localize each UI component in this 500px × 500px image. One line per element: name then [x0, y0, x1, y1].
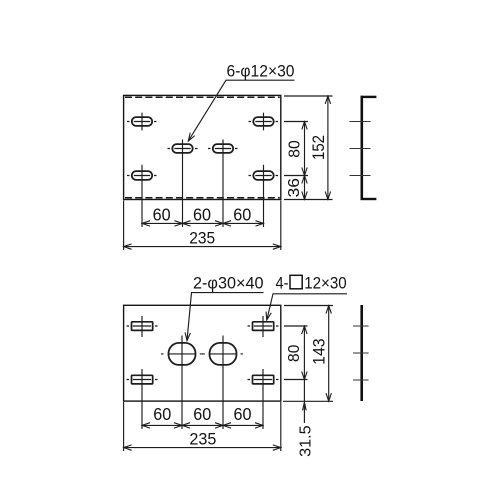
dim line 36 top view [304, 176, 306, 200]
svg-text:6-φ12×30: 6-φ12×30 [227, 62, 295, 80]
extension line bottom edge right [284, 199, 333, 201]
svg-text:4-: 4- [276, 274, 289, 292]
centerline oval F1 vertical [181, 336, 183, 430]
svg-text:80: 80 [286, 140, 303, 158]
side view top (channel edge) [360, 96, 363, 200]
slotted hole B1 (middle-left) [172, 144, 192, 153]
extension line top edge bottom view [284, 305, 333, 307]
svg-text:143: 143 [309, 338, 328, 365]
dim line 80 bottom view [303, 326, 305, 380]
extension line top edge right [284, 95, 333, 97]
extension line row3 right [284, 175, 308, 177]
dim line 152 top view [327, 96, 329, 200]
centerline slotted hole C1 [127, 165, 157, 227]
svg-text:12×30: 12×30 [304, 274, 347, 292]
leader 6-phi12x30 [188, 80, 294, 141]
svg-text:36: 36 [286, 178, 303, 198]
centerline oval F2 vertical [222, 336, 224, 430]
hidden bend line below top edge [125, 96, 280, 98]
centerline oval holes horizontal [161, 353, 243, 355]
arrowhead 31.5 pointing up [303, 402, 307, 410]
slotted hole C1 (bottom-left) [132, 171, 152, 180]
plate outline bottom view [124, 305, 281, 401]
dim line 60 chain seg2 top view [183, 222, 224, 224]
svg-text:2-φ30×40: 2-φ30×40 [193, 274, 264, 292]
svg-text:60: 60 [233, 205, 251, 225]
oval hole F2 (right) [210, 343, 237, 365]
centerline slotted hole C2 [249, 165, 279, 227]
extension line bottom edge bottom view [283, 400, 333, 402]
slotted hole B2 (middle-right) [213, 144, 233, 153]
dim line 60 chain seg3 top view [223, 222, 264, 224]
svg-text:60: 60 [193, 205, 211, 225]
centerline square hole D1 [127, 316, 158, 337]
extension line row1 right [284, 121, 308, 123]
dim line 235 top view [124, 246, 281, 248]
slotted hole C2 (bottom-right) [253, 171, 273, 180]
dim line 235 bottom view [124, 447, 281, 449]
svg-text:60: 60 [153, 205, 171, 225]
centerline slotted hole B2 vertical [222, 140, 224, 228]
dim line 31.5 bottom view [303, 380, 305, 424]
svg-text:31.5: 31.5 [297, 425, 314, 457]
svg-text:80: 80 [286, 345, 303, 362]
leader 2-phi30x40 [187, 293, 264, 341]
square hole D1 (top-left) [132, 322, 153, 331]
extension line row2 right bottom view [284, 379, 308, 381]
centerline middle row [168, 148, 238, 150]
side view top flange top [361, 96, 377, 98]
hidden bend line above bottom edge [125, 197, 280, 199]
centerline square hole D2 [248, 316, 279, 337]
dim line 60 chain seg2 bottom view [182, 424, 223, 426]
dim line 60 chain seg3 bottom view [223, 424, 263, 426]
side view bottom (flat plate edge) [360, 305, 363, 401]
square hole E2 (bottom-right) [253, 375, 274, 384]
extension lines 235 bottom view [124, 402, 281, 451]
square hole E1 (bottom-left) [132, 375, 153, 384]
square symbol in label [290, 275, 302, 289]
centerline slotted hole B1 vertical [182, 140, 184, 228]
side view top flange bottom [361, 198, 377, 200]
svg-text:60: 60 [193, 404, 211, 424]
side view bottom centerlines [353, 326, 369, 380]
svg-text:60: 60 [153, 404, 171, 424]
svg-text:235: 235 [189, 228, 215, 247]
svg-text:152: 152 [309, 135, 328, 160]
dim line 60 chain seg1 top view [142, 222, 183, 224]
centerline square hole E2 [248, 369, 279, 429]
dim line 60 chain seg1 bottom view [142, 424, 182, 426]
svg-text:60: 60 [234, 404, 252, 424]
extension line row1 right bottom view [284, 325, 308, 327]
centerline slotted hole A1 [127, 113, 157, 131]
centerline square hole E1 [127, 369, 158, 429]
oval hole F1 (left) [169, 343, 196, 365]
svg-text:235: 235 [189, 430, 216, 449]
dim line 80 top view [304, 122, 306, 176]
slotted hole A1 (top-left) [132, 117, 152, 126]
extension lines 235 top view [124, 201, 281, 251]
centerline slotted hole A2 [249, 113, 279, 131]
dim line 143 bottom view [328, 306, 330, 402]
square hole D2 (top-right) [253, 322, 274, 331]
side view top centerlines [350, 122, 371, 176]
leader 4-sq12x30 [267, 294, 347, 320]
plate outline top view [124, 95, 281, 199]
slotted hole A2 (top-right) [253, 117, 273, 126]
